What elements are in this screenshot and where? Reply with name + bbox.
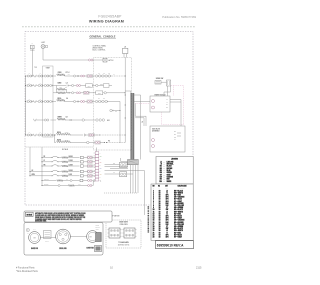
- svg-text:18: 18: [159, 213, 161, 215]
- svg-text:WH—WHITE: WH—WHITE: [174, 192, 183, 194]
- svg-text:YL—YELLOW: YL—YELLOW: [174, 224, 184, 226]
- svg-text:BU: BU: [100, 168, 102, 170]
- motor circle 3: [87, 231, 99, 243]
- connector pair on lamp wire: [88, 59, 90, 61]
- row F: bake burner: [54, 135, 56, 143]
- J2 wire: [140, 95, 142, 160]
- svg-text:N: N: [166, 192, 167, 194]
- svg-text:LK2: LK2: [107, 120, 110, 122]
- relay block: [44, 231, 52, 239]
- svg-text:————: ————: [180, 188, 186, 190]
- svg-text:18: 18: [159, 203, 161, 205]
- svg-text:TERM: TERM: [96, 225, 99, 227]
- svg-text:L1: L1: [166, 190, 168, 192]
- svg-text:WIRING DIAGRAM: WIRING DIAGRAM: [89, 20, 124, 24]
- svg-text:ROD: ROD: [98, 93, 101, 95]
- svg-text:18: 18: [159, 207, 161, 209]
- svg-text:18: 18: [159, 234, 161, 236]
- svg-text:GN—GREEN: GN—GREEN: [174, 207, 183, 209]
- svg-text:LT 1-2: LT 1-2: [66, 72, 70, 74]
- table side label: [148, 205, 150, 208]
- surface unit feed line: [26, 146, 94, 148]
- svg-text:M: M: [90, 237, 92, 239]
- header rule: [22, 26, 196, 28]
- svg-text:13: 13: [153, 216, 155, 218]
- svg-text:NOTICE: NOTICE: [27, 214, 32, 216]
- svg-text:18: 18: [159, 226, 161, 228]
- dashed return wire: [104, 192, 138, 194]
- right lower comp: [95, 246, 102, 252]
- component symbols box: [24, 223, 103, 256]
- harness connector block: [128, 160, 139, 165]
- legend box: [156, 157, 193, 185]
- SP row verticals: [41, 147, 43, 166]
- svg-text:GENERAL CONSOLE: GENERAL CONSOLE: [90, 35, 116, 38]
- svg-text:3-6: 3-6: [66, 98, 68, 100]
- small icon top-left: [26, 228, 29, 231]
- svg-text:RD—RED: RD—RED: [174, 232, 182, 234]
- part number rev box: [156, 241, 194, 249]
- connector grid right: [124, 228, 135, 238]
- svg-text:15: 15: [153, 220, 155, 222]
- cabinet dashed outline: [25, 32, 193, 206]
- wire color code table: [151, 184, 193, 240]
- svg-text:BU—BLUE: BU—BLUE: [174, 216, 182, 218]
- svg-text:18: 18: [159, 211, 161, 213]
- svg-text:18: 18: [159, 199, 161, 201]
- svg-text:WH: WH: [159, 181, 161, 183]
- svg-text:2115: 2115: [196, 266, 202, 269]
- svg-text:20: 20: [153, 230, 155, 232]
- wire from plug down to row A: [31, 49, 33, 76]
- svg-text:DR: DR: [113, 163, 115, 165]
- svg-text:WH—WHITE: WH—WHITE: [174, 211, 183, 213]
- door switch S2: [105, 173, 120, 175]
- door switch S1: [105, 164, 120, 166]
- svg-text:GN: GN: [100, 156, 102, 158]
- svg-text:LINE ONE: LINE ONE: [167, 161, 174, 163]
- surface unit row WRM: [29, 175, 30, 176]
- svg-text:LT: LT: [113, 172, 115, 174]
- svg-text:LEGEND: LEGEND: [171, 159, 179, 161]
- svg-text:18: 18: [159, 218, 161, 220]
- harness exit wires: [105, 166, 129, 168]
- svg-text:OVEN: OVEN: [58, 72, 62, 74]
- svg-text:N: N: [166, 232, 167, 234]
- svg-text:RD—RED: RD—RED: [174, 213, 182, 215]
- timer box: [43, 66, 54, 137]
- svg-text:18: 18: [159, 190, 161, 192]
- harness ribbon bus: [131, 93, 134, 163]
- svg-text:GY: GY: [160, 174, 162, 176]
- motor circle 2 (compressor): [56, 229, 71, 244]
- svg-text:*Non-Illustrated Parts: *Non-Illustrated Parts: [16, 270, 39, 273]
- row A inside control box: [95, 75, 97, 77]
- svg-text:IGN: IGN: [166, 222, 169, 224]
- oven light row y180: [41, 180, 42, 181]
- high voltage pink dashed: [171, 85, 184, 87]
- connecting wires: [40, 237, 55, 239]
- svg-text:BK: BK: [174, 131, 176, 133]
- svg-text:TCO: TCO: [88, 86, 91, 88]
- svg-text:SP1: SP1: [166, 195, 169, 197]
- wire lamp to control box: [42, 49, 44, 61]
- oven lamp L1: [41, 45, 45, 49]
- row C: broil circuit: [25, 101, 26, 102]
- verticals to gas valve: [180, 100, 182, 134]
- svg-text:NO: NO: [152, 186, 154, 188]
- surface unit row LF: [41, 161, 42, 162]
- svg-text:RED: RED: [167, 179, 170, 181]
- svg-text:22: 22: [153, 234, 155, 236]
- svg-text:OR: OR: [100, 173, 102, 175]
- svg-text:J1: J1: [124, 46, 126, 48]
- svg-text:L1: L1: [160, 161, 162, 163]
- harness drop wires: [130, 165, 132, 193]
- svg-text:BR—BROWN: BR—BROWN: [174, 222, 184, 224]
- motor circle 1: [29, 232, 41, 244]
- svg-text:5-8: 5-8: [66, 117, 68, 119]
- svg-text:18: 18: [159, 228, 161, 230]
- svg-text:M: M: [34, 238, 36, 240]
- svg-text:GN—GREEN: GN—GREEN: [174, 226, 183, 228]
- svg-text:18: 18: [159, 230, 161, 232]
- svg-text:WHITE: WHITE: [167, 181, 172, 183]
- row D: warmer: [33, 119, 36, 121]
- vertical feed x=120: [119, 102, 121, 144]
- vertical wire x=125: [124, 91, 126, 143]
- bake ignitor element loop: [56, 86, 58, 93]
- module wires right: [170, 99, 181, 101]
- svg-text:TOD: TOD: [34, 67, 37, 69]
- svg-text:IGN: IGN: [166, 203, 169, 205]
- svg-text:699599010 REV:A: 699599010 REV:A: [157, 244, 184, 248]
- relay K5 cluster: [110, 109, 112, 111]
- J1 drop wire: [124, 58, 126, 92]
- svg-text:WH—WHITE: WH—WHITE: [174, 230, 183, 232]
- svg-text:GY: GY: [174, 139, 176, 141]
- svg-text:SP1: SP1: [166, 234, 169, 236]
- svg-text:RD—RED: RD—RED: [174, 195, 182, 197]
- svg-text:YL—YELLOW: YL—YELLOW: [174, 205, 184, 207]
- svg-text:FGB24S5ABP: FGB24S5ABP: [98, 14, 122, 18]
- svg-text:18: 18: [159, 237, 161, 239]
- control panel (EOC) dashed box: [94, 58, 132, 151]
- svg-text:TIMER: TIMER: [46, 67, 50, 69]
- svg-text:OL: OL: [27, 232, 29, 234]
- svg-text:11: 11: [153, 211, 155, 213]
- connector grid left: [109, 228, 120, 238]
- svg-text:18: 18: [159, 224, 161, 226]
- row B2: bake ignitor rod: [57, 92, 65, 94]
- svg-text:BU—BLUE: BU—BLUE: [174, 234, 182, 236]
- strip top tick: [96, 148, 98, 152]
- surface unit row LR: [29, 171, 30, 172]
- gas valve box: [150, 126, 185, 152]
- svg-text:BU—BLUE: BU—BLUE: [174, 199, 182, 201]
- svg-text:SP2: SP2: [166, 218, 169, 220]
- row B: bake circuit: [25, 85, 26, 86]
- SP lower verticals: [41, 166, 43, 186]
- svg-text:18: 18: [159, 192, 161, 194]
- svg-text:10: 10: [153, 209, 155, 211]
- svg-text:18: 18: [153, 226, 155, 228]
- svg-text:CONN VIEW: CONN VIEW: [119, 224, 128, 226]
- spark wires down: [167, 86, 169, 96]
- svg-text:L1: L1: [166, 230, 168, 232]
- svg-text:18: 18: [159, 209, 161, 211]
- svg-text:18: 18: [159, 222, 161, 224]
- svg-text:SP3: SP3: [166, 199, 169, 201]
- svg-text:17: 17: [153, 224, 155, 226]
- svg-text:23: 23: [153, 237, 155, 239]
- ladder top feed: [125, 90, 131, 92]
- svg-text:SP2: SP2: [166, 237, 169, 239]
- door switch block: [103, 58, 107, 62]
- svg-text:BROWN: BROWN: [167, 168, 173, 170]
- svg-text:# Functional Parts: # Functional Parts: [16, 266, 35, 269]
- svg-text:CKT: CKT: [165, 186, 168, 188]
- svg-text:18: 18: [159, 197, 161, 199]
- svg-text:BR—BROWN: BR—BROWN: [174, 203, 184, 205]
- svg-text:19: 19: [153, 228, 155, 230]
- row C inside control box: [95, 100, 97, 102]
- svg-text:18: 18: [159, 220, 161, 222]
- svg-text:N: N: [167, 102, 168, 104]
- svg-text:COLOR CODE: COLOR CODE: [177, 186, 186, 188]
- svg-text:18: 18: [159, 195, 161, 197]
- svg-text:GREEN: GREEN: [167, 172, 172, 174]
- svg-text:SP1: SP1: [166, 216, 169, 218]
- NOTICE tag: [26, 212, 34, 216]
- clock row y185.5: [41, 185, 42, 186]
- svg-text:18: 18: [159, 201, 161, 203]
- svg-text:RD: RD: [160, 179, 162, 181]
- row A: oven light circuit: [25, 75, 26, 76]
- svg-text:BLUE: BLUE: [167, 170, 171, 172]
- svg-text:12: 12: [153, 213, 155, 215]
- svg-text:SP2: SP2: [166, 197, 169, 199]
- svg-text:BU: BU: [160, 170, 162, 172]
- svg-text:N: N: [161, 164, 162, 166]
- blob feed L: [120, 158, 122, 161]
- svg-text:16: 16: [153, 222, 155, 224]
- svg-text:DLB: DLB: [100, 83, 103, 85]
- svg-text:LT: LT: [166, 207, 168, 209]
- svg-text:WH: WH: [174, 134, 176, 136]
- svg-text:RD: RD: [174, 136, 176, 138]
- svg-text:Publication No. 5995477469: Publication No. 5995477469: [162, 15, 196, 19]
- connector strip P5: [95, 152, 99, 155]
- svg-text:21: 21: [153, 232, 155, 234]
- svg-text:18: 18: [159, 216, 161, 218]
- surface unit row RR: [41, 165, 42, 166]
- svg-text:BROIL IGN: BROIL IGN: [59, 248, 66, 250]
- spark connector: [167, 80, 171, 86]
- svg-text:GN: GN: [160, 172, 162, 174]
- notes box: [24, 211, 112, 222]
- svg-text:18: 18: [159, 232, 161, 234]
- svg-text:LT: LT: [166, 226, 168, 228]
- left wire bus: [25, 76, 27, 135]
- svg-text:ELEC. CONTROL: ELEC. CONTROL: [93, 50, 106, 52]
- surface unit row RF: [41, 157, 42, 158]
- svg-text:18: 18: [159, 205, 161, 207]
- ladder to module wires: [134, 100, 152, 102]
- svg-text:N: N: [166, 213, 167, 215]
- svg-text:RD: RD: [100, 162, 102, 164]
- svg-text:SP3: SP3: [166, 220, 169, 222]
- row E: broil burner: [25, 134, 26, 135]
- svg-text:BLOCK: BLOCK: [96, 227, 100, 229]
- svg-text:L1: L1: [166, 211, 168, 213]
